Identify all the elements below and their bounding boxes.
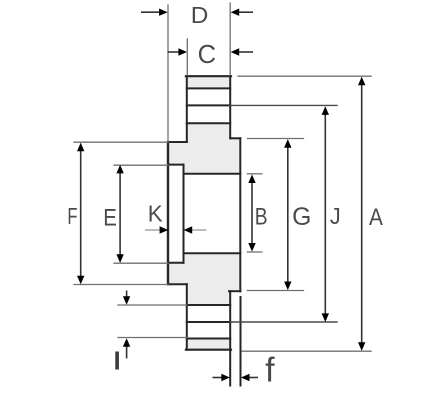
- dim E: [119, 169, 121, 260]
- upper bore shoulder fill: [184, 165, 241, 174]
- hub left edge: [186, 76, 188, 142]
- ext J top: [230, 105, 337, 322]
- raised face right: [183, 165, 185, 263]
- ext F top: [74, 141, 168, 143]
- ext C left: [186, 39, 188, 75]
- ext J bottom: [230, 321, 337, 323]
- hub top edge: [186, 75, 231, 77]
- top hub band fill: [187, 76, 230, 88]
- top hub base fill: [187, 123, 230, 138]
- svg-text:F: F: [67, 204, 77, 229]
- top right shoulder fill: [187, 138, 241, 142]
- f right extension line: [240, 297, 242, 386]
- thread line t2: [187, 104, 230, 106]
- right shoulder: [230, 137, 240, 139]
- dimension lines with arrowheads: [77, 9, 365, 382]
- ext D left: [167, 5, 169, 141]
- bottom left shoulder: [168, 283, 187, 285]
- bore top line: [184, 173, 241, 175]
- ext F bottom: [74, 284, 168, 286]
- ext I bottom: [118, 337, 187, 339]
- bottom left shoulder fill: [187, 284, 241, 291]
- svg-text:E: E: [103, 204, 117, 231]
- svg-text:J: J: [330, 203, 341, 229]
- dim K left arrow: [145, 229, 161, 231]
- ext A top: [238, 75, 371, 77]
- svg-text:B: B: [255, 202, 268, 230]
- svg-text:C: C: [198, 41, 216, 69]
- bottom right shoulder: [229, 290, 241, 292]
- ring left face: [167, 142, 169, 284]
- dim B: [251, 178, 253, 248]
- ext E top: [114, 164, 168, 166]
- dim J: [324, 110, 326, 318]
- flange ring lower fill: [168, 263, 240, 284]
- thread line b1: [187, 304, 230, 306]
- hub bottom edge: [186, 349, 231, 351]
- dim C arrows: [168, 51, 181, 53]
- ext B bottom: [247, 251, 261, 253]
- label I: [115, 352, 119, 370]
- bottom hub base fill: [187, 291, 230, 305]
- extension lines: [74, 3, 371, 351]
- dim G: [287, 143, 289, 287]
- bottom hub right edge + f extension: [229, 291, 231, 385]
- svg-text:D: D: [191, 4, 209, 29]
- ext E bottom: [114, 262, 168, 264]
- raised face top: [168, 164, 184, 166]
- hub right edge: [229, 76, 231, 138]
- ring right edge: [239, 138, 241, 291]
- svg-text:A: A: [369, 202, 384, 230]
- thread line b2: [187, 321, 230, 323]
- ext G bottom: [247, 290, 303, 292]
- thread line t3: [187, 122, 230, 124]
- ext G top: [247, 138, 303, 140]
- thread line t1: [187, 87, 230, 89]
- dim D arrows: [141, 11, 161, 13]
- ext D/C right: [229, 3, 231, 75]
- ext B top: [247, 173, 261, 175]
- svg-text:G: G: [292, 204, 311, 231]
- raised face bottom: [168, 262, 184, 264]
- flange outline: [168, 76, 241, 385]
- ext A bottom: [242, 350, 371, 352]
- flange ring upper fill: [168, 142, 240, 165]
- bottom hub left edge: [186, 284, 188, 350]
- dim A: [361, 80, 363, 347]
- svg-text:K: K: [148, 200, 164, 227]
- lower bore shoulder fill: [184, 253, 241, 262]
- bore bottom line: [184, 252, 241, 254]
- dim f arrows: [213, 377, 224, 379]
- thread line b3: [187, 338, 230, 340]
- dim K right arrow: [191, 229, 207, 231]
- svg-text:f: f: [265, 351, 275, 389]
- ext I top: [118, 304, 187, 306]
- left shoulder: [168, 141, 187, 143]
- dim F: [80, 146, 82, 281]
- bottom hub band fill: [187, 339, 230, 350]
- dim I arrows: [126, 291, 128, 300]
